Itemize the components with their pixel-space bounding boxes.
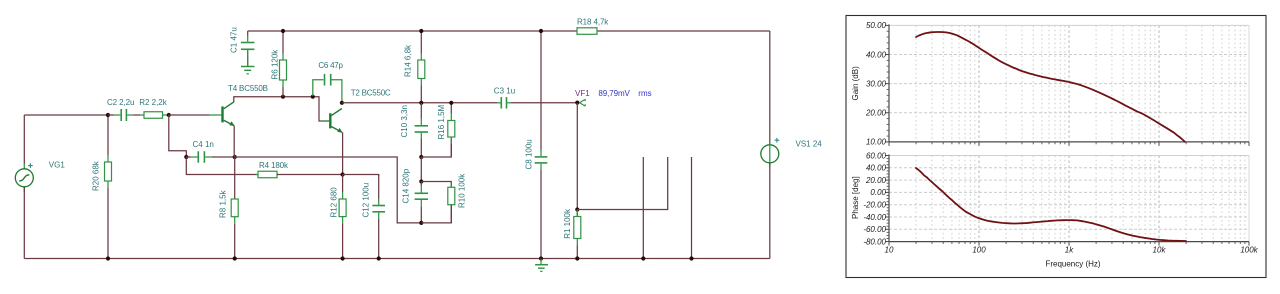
wire bottom rail [24, 258, 770, 260]
junction C12 bottom rail [377, 256, 381, 260]
svg-text:rms: rms [638, 89, 651, 98]
junction R12 bottom rail [341, 256, 345, 260]
resistor R10 [448, 182, 455, 223]
wire VG1 top vertical [23, 115, 25, 164]
svg-text:10: 10 [885, 246, 894, 255]
wire C4 node to R4 line [186, 157, 258, 175]
svg-text:R20 68k: R20 68k [92, 160, 101, 191]
VS1 plus polarity mark [775, 138, 780, 143]
svg-text:R18 4,7k: R18 4,7k [577, 18, 609, 27]
wire output line [342, 102, 497, 104]
svg-text:R10 100k: R10 100k [458, 173, 467, 208]
transistor T2 [321, 109, 343, 133]
wire T4 emitter down [233, 126, 235, 157]
wire top rail down to VS1 [769, 31, 771, 145]
svg-text:T4 BC550B: T4 BC550B [228, 84, 268, 93]
svg-text:100: 100 [972, 246, 986, 255]
svg-text:VF1: VF1 [575, 89, 590, 98]
junction C4/T4 emitter node [233, 155, 237, 159]
svg-text:C14 820p: C14 820p [402, 168, 411, 203]
svg-text:40.00: 40.00 [866, 164, 887, 173]
junction T2 emitter node [341, 172, 345, 176]
svg-text:Gain (dB): Gain (dB) [851, 66, 860, 101]
wire C3 to VF1 node [511, 102, 577, 104]
svg-text:1k: 1k [1065, 246, 1074, 255]
svg-text:0.00: 0.00 [870, 188, 886, 197]
svg-text:R14 6,8k: R14 6,8k [404, 44, 413, 77]
resistor R18 [577, 28, 597, 35]
svg-text:C12 100u: C12 100u [362, 183, 371, 218]
wire R10 bottom jog [421, 205, 451, 223]
capacitor C4 [186, 151, 216, 163]
phase y-axis labels [863, 151, 886, 246]
voltage pin VF1 symbol [580, 99, 586, 106]
wire open stub left [642, 157, 644, 259]
svg-text:R4 180k: R4 180k [259, 161, 289, 170]
wire R16 bottom jog [421, 138, 451, 158]
wire emitter node to C12 [343, 175, 379, 177]
voltage source VS1 [761, 141, 779, 167]
wire R2 to T4 base [169, 114, 210, 116]
junction R14 top rail [419, 29, 423, 33]
svg-text:60.00: 60.00 [866, 151, 887, 160]
svg-text:100k: 100k [1240, 246, 1258, 255]
wire emitter node to R8 [234, 157, 236, 199]
transistor T4 [210, 102, 235, 126]
svg-text:C1 47u: C1 47u [230, 27, 239, 53]
wire T4 collector up [234, 97, 329, 121]
svg-text:10k: 10k [1153, 246, 1167, 255]
junction ground rail [539, 256, 543, 260]
svg-text:Phase [deg]: Phase [deg] [851, 176, 860, 219]
wire VG1 bottom vertical [23, 187, 25, 259]
resistor R8 [231, 198, 238, 259]
svg-text:R2 2,2k: R2 2,2k [139, 98, 167, 107]
svg-text:C6 47p: C6 47p [318, 61, 343, 70]
resistor R4 [256, 171, 277, 178]
junction R16/output line [449, 101, 453, 105]
svg-text:10.00: 10.00 [866, 138, 887, 147]
junction R2/T4 base node [167, 113, 171, 117]
resistor R14 [418, 31, 425, 103]
capacitor C1 [241, 31, 255, 67]
wire top supply rail [248, 30, 770, 32]
wire T2 emitter down [342, 132, 344, 174]
svg-text:-80.00: -80.00 [863, 237, 886, 246]
voltage generator VG1 [15, 163, 33, 192]
junction C4 left node [184, 155, 188, 159]
wire open stub right [691, 157, 693, 259]
wire base node to C4 jog [169, 115, 187, 157]
svg-text:C3 1u: C3 1u [494, 87, 515, 96]
resistor R20 [105, 115, 112, 259]
wire R10 top jog [421, 182, 451, 188]
wire input node horizontal [24, 114, 108, 116]
gain plot gridlines [889, 25, 1249, 141]
junction T2 collector output node [340, 101, 344, 105]
wire C10 node down to C14 node [420, 157, 422, 182]
resistor R6 [280, 31, 287, 97]
capacitor C2 [108, 109, 140, 121]
junction stub right rail [689, 256, 693, 260]
resistor R16 [448, 103, 455, 157]
junction R20 bottom rail [106, 256, 110, 260]
svg-text:R12 680: R12 680 [330, 187, 339, 218]
junction input/R20 [106, 113, 110, 117]
svg-text:30.00: 30.00 [866, 80, 887, 89]
capacitor C12 [372, 175, 385, 259]
junction C10 bottom node [419, 155, 423, 159]
wire VF1 node down [576, 103, 578, 217]
svg-text:R8 1,5k: R8 1,5k [219, 189, 228, 218]
svg-text:-40.00: -40.00 [863, 213, 886, 222]
svg-text:R6 120k: R6 120k [271, 49, 280, 80]
svg-text:20.00: 20.00 [865, 109, 887, 118]
svg-text:Frequency (Hz): Frequency (Hz) [1045, 260, 1100, 269]
svg-text:C2 2,2u: C2 2,2u [107, 98, 134, 107]
capacitor C8 [535, 31, 548, 259]
junction C14 bottom node [419, 221, 423, 225]
junction R1 bottom rail [575, 256, 579, 260]
capacitor C14 [415, 182, 428, 223]
svg-text:C8 100u: C8 100u [525, 139, 534, 169]
ground symbol at C1 [241, 50, 255, 74]
phase plot axes and ticks [885, 155, 1249, 246]
svg-text:VG1: VG1 [49, 160, 66, 169]
gain y-axis labels [865, 21, 887, 147]
junction VF1 output node [575, 101, 579, 105]
svg-text:20.00: 20.00 [865, 176, 887, 185]
frequency axis labels [885, 246, 1259, 255]
svg-text:-60.00: -60.00 [863, 225, 886, 234]
gain curve [916, 32, 1185, 142]
capacitor C3 [497, 97, 511, 109]
svg-text:-20.00: -20.00 [863, 201, 886, 210]
svg-text:VS1 24: VS1 24 [796, 140, 823, 149]
junction stub left rail [641, 256, 645, 260]
resistor R12 [339, 175, 346, 259]
svg-text:R1 100k: R1 100k [563, 208, 572, 239]
ground symbol [535, 259, 548, 272]
svg-text:R16 1,5M: R16 1,5M [437, 104, 446, 139]
plot panel border [846, 16, 1266, 278]
phase curve [916, 168, 1186, 241]
capacitor C6 with leads [313, 74, 342, 102]
svg-text:C10 3,3n: C10 3,3n [400, 105, 409, 137]
wire feedback emitter to C14/R10 [235, 157, 422, 223]
resistor R1 [574, 210, 581, 259]
capacitor C10 [415, 103, 428, 157]
wire R1 node to middle stub [577, 157, 667, 210]
junction R8 bottom rail [233, 256, 237, 260]
svg-text:T2 BC550C: T2 BC550C [351, 89, 391, 98]
junction C6 left/collector line [311, 95, 315, 99]
svg-text:89,79mV: 89,79mV [598, 89, 630, 98]
svg-text:C4 1n: C4 1n [193, 140, 214, 149]
junction R14/output line [419, 101, 423, 105]
junction R1 top node [575, 207, 579, 211]
junction C8 top rail [539, 29, 543, 33]
wire C4 right to emitter node [217, 156, 235, 158]
VG1 plus polarity mark [28, 163, 33, 168]
junction R6 top rail [281, 29, 285, 33]
junction C14 top node [419, 179, 423, 183]
wire VS1 bottom [769, 163, 771, 259]
gain plot axes and ticks [885, 24, 1249, 145]
wire R4 to T2 emitter node [277, 174, 343, 176]
resistor R2 [140, 112, 169, 119]
svg-text:40.00: 40.00 [866, 50, 887, 59]
phase plot gridlines [889, 156, 1249, 242]
svg-text:50.00: 50.00 [866, 21, 887, 30]
junction R6/collector line [281, 95, 285, 99]
